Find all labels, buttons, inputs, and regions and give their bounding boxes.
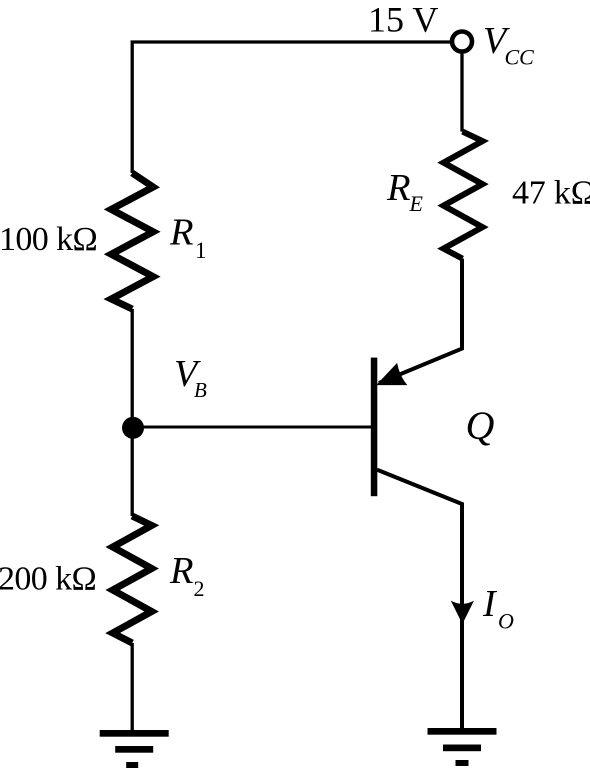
svg-text:47 kΩ: 47 kΩ: [512, 175, 590, 212]
svg-text:O: O: [498, 609, 514, 634]
svg-text:R: R: [169, 212, 194, 254]
svg-text:15 V: 15 V: [368, 0, 438, 40]
svg-text:E: E: [409, 191, 424, 216]
svg-text:R: R: [169, 550, 194, 592]
svg-text:100 kΩ: 100 kΩ: [0, 221, 97, 258]
svg-text:200 kΩ: 200 kΩ: [0, 561, 96, 598]
svg-text:1: 1: [195, 238, 207, 263]
svg-text:B: B: [194, 378, 207, 402]
svg-text:I: I: [482, 583, 498, 625]
svg-text:R: R: [386, 167, 411, 209]
svg-text:CC: CC: [505, 45, 535, 70]
svg-text:Q: Q: [466, 403, 495, 448]
svg-text:2: 2: [194, 576, 205, 601]
